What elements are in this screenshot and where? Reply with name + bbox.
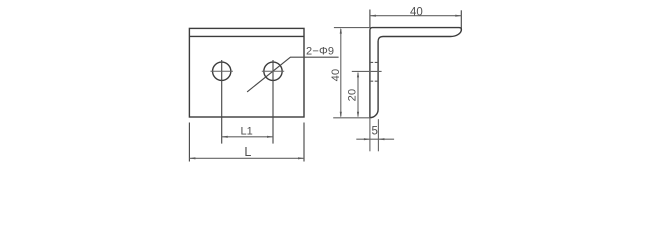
svg-text:L: L <box>244 145 251 159</box>
svg-text:40: 40 <box>410 6 423 18</box>
svg-text:5: 5 <box>371 125 377 137</box>
svg-text:40: 40 <box>330 69 342 82</box>
svg-text:20: 20 <box>346 89 358 102</box>
svg-text:2−Φ9: 2−Φ9 <box>306 46 334 58</box>
svg-text:L1: L1 <box>240 125 252 137</box>
